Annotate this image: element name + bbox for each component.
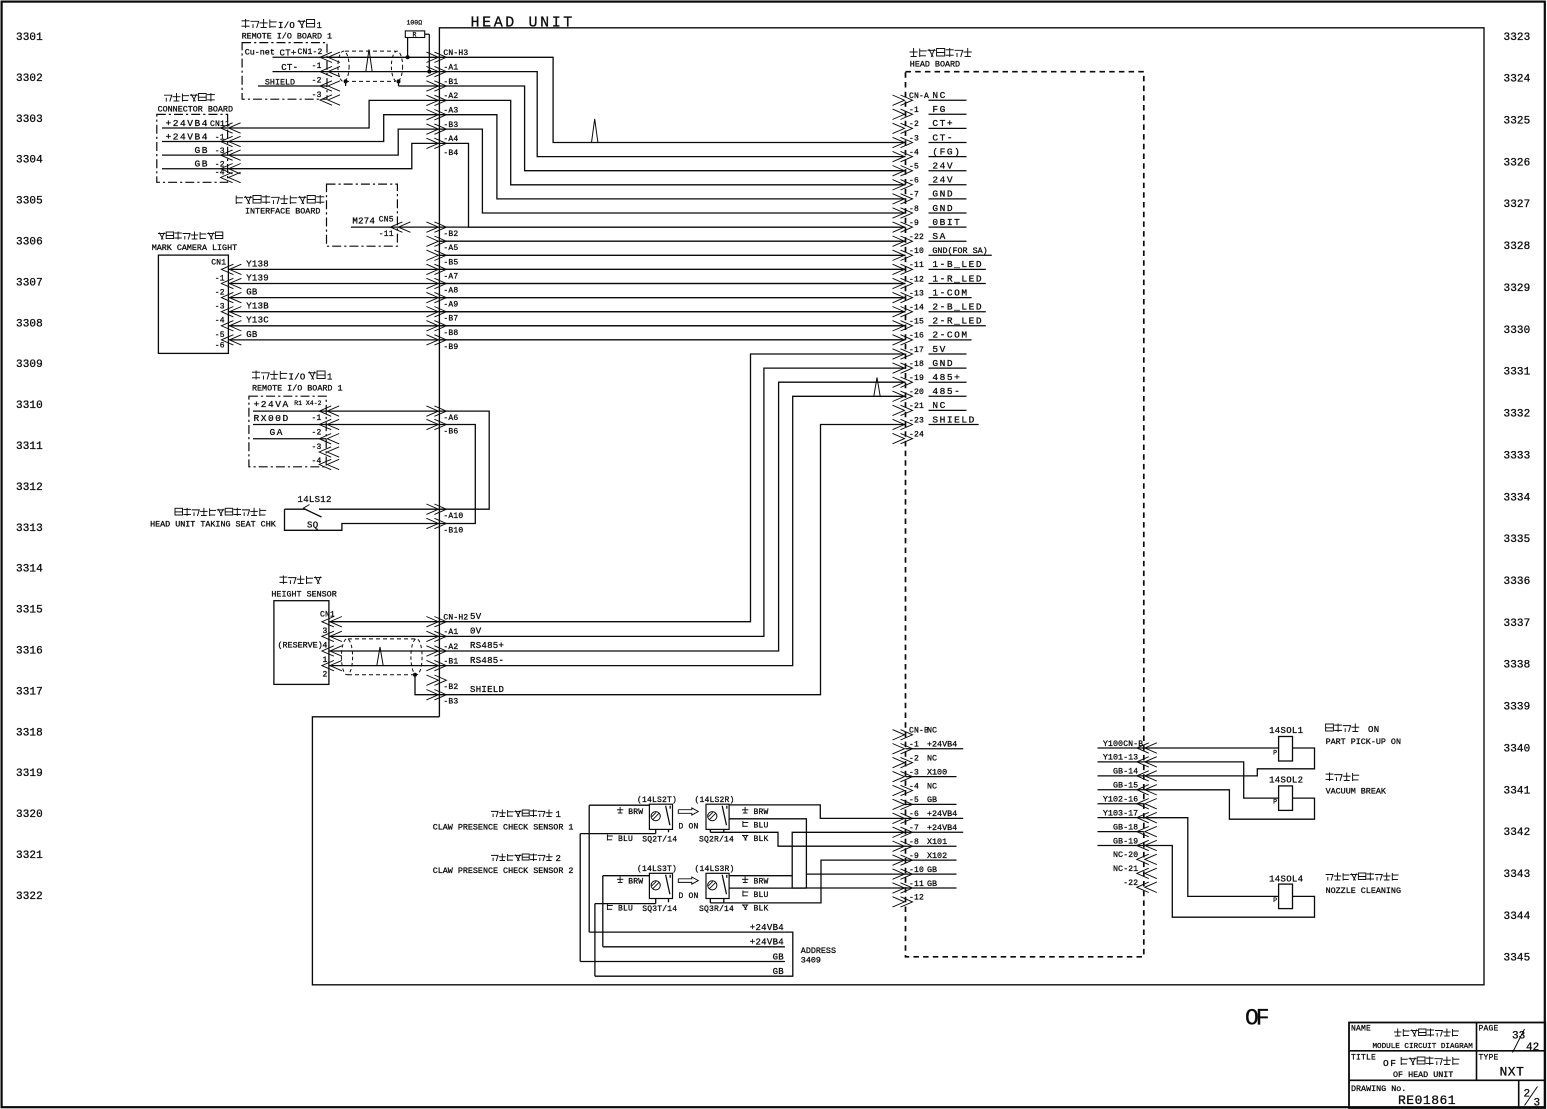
head board connector CN-B pin -5 (GB) (893, 795, 957, 809)
wire SHIELD (399, 85, 440, 87)
svg-text:SQ3R/14: SQ3R/14 (699, 905, 734, 914)
wire -A2 to head board (439, 100, 905, 184)
svg-text:3331: 3331 (1504, 367, 1531, 379)
svg-text:-3: -3 (215, 303, 225, 312)
svg-text:SQ3T/14: SQ3T/14 (642, 905, 677, 914)
claw sensor 1 title CLAW PRESENCE CHECK SENSOR 1 (433, 823, 574, 833)
wire 14SOL4 return to -19 (1144, 846, 1315, 918)
head board connector CN-B pin -13 (Y101) (1098, 753, 1157, 767)
svg-text:2-R_LED: 2-R_LED (932, 316, 983, 327)
svg-text:CN1-2: CN1-2 (297, 48, 322, 57)
wire GB camera to head board (228, 297, 905, 299)
head board connector CN-B pin -8 (X101) (893, 837, 957, 851)
svg-text:-11: -11 (909, 261, 924, 270)
boundary connector pin -B4 (unused) (443, 149, 458, 158)
svg-text:SQ2T/14: SQ2T/14 (642, 836, 677, 845)
wire row -A9 to head board (439, 297, 905, 299)
connector board pin -1 (+24VB4) (162, 131, 241, 146)
grid line number 3312 (16, 482, 43, 494)
height sensor (RESERVE) label (278, 641, 323, 651)
boundary connector pin -A5 (426, 236, 458, 253)
wire row -B9 to head board (439, 339, 905, 341)
svg-text:-3: -3 (909, 134, 919, 143)
wire GB -3 to boundary (228, 129, 440, 155)
height sensor pin 4 (322, 646, 342, 656)
vacuum break title VACUUM BREAK (1326, 786, 1387, 796)
boundary connector pin -B3 (SHIELD) (426, 685, 504, 707)
svg-text:485+: 485+ (932, 372, 961, 383)
wire -B3 to head board (439, 129, 905, 213)
svg-text:3327: 3327 (1504, 199, 1531, 211)
svg-text:OF HEAD UNIT: OF HEAD UNIT (1393, 1070, 1453, 1080)
svg-text:OF: OF (1383, 1058, 1398, 1069)
title block name (モジュール回路図) (1394, 1029, 1459, 1037)
sensor 14LS3R label (695, 865, 735, 874)
Cu-net pin -3 (312, 91, 340, 105)
sensor 14LS2R label (695, 796, 735, 805)
svg-text:BLU: BLU (618, 835, 633, 844)
boundary connector pin -A8 (426, 278, 458, 295)
connector board pin -2 (GB) (162, 159, 241, 174)
svg-text:NC: NC (1113, 850, 1123, 860)
head board connector CN-B pin -7 (+24VB4) (893, 823, 964, 837)
connector board title (コネクタ基板) (164, 93, 215, 102)
head board connector CN-B pin -18 (GB) (1098, 822, 1157, 836)
title block PAGE label (1479, 1025, 1499, 1034)
shielded cable (height sensor) (341, 639, 422, 675)
svg-text:2: 2 (556, 854, 562, 864)
svg-text:3341: 3341 (1504, 785, 1531, 797)
wire CN-H2 to head board (439, 382, 905, 651)
height sensor pin number 4 (322, 642, 327, 651)
wire row -A8 to head board (439, 283, 905, 285)
SQ3R/14 label (699, 905, 734, 914)
svg-text:-20: -20 (1123, 851, 1138, 860)
grid line number 3306 (16, 237, 43, 249)
svg-text:3334: 3334 (1504, 492, 1531, 504)
svg-text:CN1: CN1 (211, 259, 226, 268)
svg-text:3: 3 (1534, 1098, 1541, 1109)
svg-text:CT+: CT+ (932, 118, 954, 129)
svg-text:BRW: BRW (754, 878, 769, 887)
svg-text:2-B_LED: 2-B_LED (932, 302, 983, 313)
camera pin -3 (Y13B) (215, 302, 270, 317)
svg-text:GB: GB (1113, 822, 1123, 832)
wire 14SOL2 return to -15 (1144, 790, 1315, 819)
grid line number 3338 (1504, 660, 1531, 672)
boundary connector pin -B2 (None) (426, 675, 458, 692)
3R BLU color label (743, 891, 769, 901)
svg-text:(14LS3R): (14LS3R) (695, 865, 735, 874)
svg-text:Cu-net: Cu-net (245, 48, 275, 58)
svg-text:3339: 3339 (1504, 702, 1531, 714)
svg-text:3409: 3409 (801, 956, 821, 966)
type NXT (1500, 1065, 1525, 1080)
svg-text:-2: -2 (311, 429, 321, 438)
wire row -B5 to head board (439, 254, 905, 256)
head board connector CN-B pin -16 (Y102) (1098, 795, 1157, 809)
svg-text:FG: FG (932, 104, 947, 115)
svg-text:-6: -6 (215, 342, 225, 351)
grid line number 3343 (1504, 869, 1531, 881)
solenoid 14SOL4 (1273, 884, 1292, 909)
svg-text:-B5: -B5 (443, 258, 458, 267)
solenoid 14SOL4 label (1269, 875, 1303, 885)
grid line number 3318 (16, 727, 43, 739)
connector board pin -4 (215, 169, 241, 183)
svg-text:SHIELD: SHIELD (932, 414, 976, 425)
svg-text:-9: -9 (909, 219, 919, 228)
boundary pin -B10 (426, 518, 463, 535)
head board connector CN-B pin -14 (GB) (1098, 767, 1157, 781)
svg-text:GB: GB (1113, 767, 1123, 777)
svg-text:CLAW PRESENCE CHECK SENSOR 1: CLAW PRESENCE CHECK SENSOR 1 (433, 823, 574, 833)
head board connector CN-A pin -4 ((FG)) (893, 146, 967, 161)
camera pin CN1 (Y138) (221, 259, 269, 274)
mark camera light outline (158, 255, 228, 353)
svg-text:RE01861: RE01861 (1398, 1093, 1456, 1108)
svg-text:+24VB4: +24VB4 (927, 740, 957, 750)
ADDRESS 3409 label (801, 946, 836, 966)
svg-text:R1 X4-2: R1 X4-2 (294, 400, 321, 407)
head board connector CN-B pin -17 (Y103) (1098, 808, 1157, 823)
SQ3T/14 label (642, 905, 677, 914)
svg-text:3310: 3310 (16, 400, 43, 412)
wire CT+ (327, 56, 439, 58)
svg-text:14SOL2: 14SOL2 (1269, 776, 1303, 786)
title block TITLE label (1351, 1053, 1376, 1062)
connector board title CONNECTOR BOARD (158, 105, 233, 115)
svg-text:-10: -10 (909, 247, 924, 256)
svg-text:5V: 5V (932, 344, 947, 355)
svg-text:+24VB4: +24VB4 (750, 938, 784, 948)
terminator resistor R 100 ohm (405, 20, 431, 74)
shield tap right (397, 79, 401, 86)
grid line number 3320 (16, 809, 43, 821)
3R BRW color label (742, 877, 769, 887)
page number 33/42 (1512, 1029, 1539, 1054)
svg-text:HEAD UNIT: HEAD UNIT (471, 15, 575, 32)
grid line number 3324 (1504, 74, 1531, 86)
grid line number 3335 (1504, 534, 1531, 546)
svg-text:-20: -20 (909, 388, 924, 397)
wire M274 to boundary (397, 226, 439, 228)
mark camera light title (マークカメラ光源) (158, 232, 223, 240)
wire +24VB4 CN11 to boundary (228, 100, 440, 128)
svg-text:NC: NC (932, 400, 947, 411)
svg-text:3330: 3330 (1504, 325, 1531, 337)
svg-text:GB: GB (194, 145, 209, 156)
svg-text:1: 1 (322, 656, 327, 665)
wire 2T BRW drop to +24VB4 rail (588, 805, 590, 932)
beam arrow sensor 2 (678, 877, 698, 884)
grid line number 3336 (1504, 576, 1531, 588)
head board connector CN-A pin -13 (1-COM) (893, 287, 972, 302)
height sensor pin number 1 (322, 656, 327, 665)
D ON label sensor 1 (679, 823, 699, 832)
wire GB camera to head board (228, 339, 905, 341)
svg-text:3307: 3307 (16, 277, 43, 289)
2R BLK color label (742, 835, 769, 844)
svg-text:GB: GB (773, 967, 785, 977)
svg-text:BRW: BRW (628, 808, 643, 817)
svg-text:Y101: Y101 (1103, 753, 1123, 763)
photo sensor 14LS2T (649, 804, 672, 829)
svg-text:NC: NC (932, 90, 947, 101)
svg-text:3318: 3318 (16, 727, 43, 739)
svg-text:-B7: -B7 (443, 315, 458, 324)
wire row -B8 to head board (439, 325, 905, 327)
wire 3T BRW drop to +24VB4 rail (602, 876, 604, 947)
svg-text:3313: 3313 (16, 523, 43, 535)
svg-text:M274: M274 (352, 216, 375, 226)
wire CN-H3 to head board (439, 57, 905, 142)
grid line number 3321 (16, 850, 43, 862)
grid line number 3330 (1504, 325, 1531, 337)
wire height sensor (329, 621, 440, 623)
svg-text:4: 4 (322, 642, 327, 651)
grid line number 3309 (16, 359, 43, 371)
height sensor connector CN1 label (320, 611, 335, 620)
svg-text:(14LS3T): (14LS3T) (637, 865, 677, 874)
height sensor pin 3 (322, 631, 342, 641)
head board connector CN-B pin -22 (None) (1123, 879, 1157, 892)
boundary connector pin -A1 (426, 63, 458, 76)
wire row -B2 to head board (439, 226, 905, 228)
svg-text:BLU: BLU (754, 822, 769, 831)
svg-text:3325: 3325 (1504, 116, 1531, 128)
grid line number 3326 (1504, 157, 1531, 169)
svg-text:24V: 24V (932, 175, 954, 186)
shield tap left (344, 79, 348, 86)
svg-text:1: 1 (556, 810, 562, 820)
title block MODULE CIRCUIT DIAGRAM (1373, 1043, 1474, 1051)
svg-text:-22: -22 (1123, 879, 1138, 888)
svg-text:MODULE CIRCUIT DIAGRAM: MODULE CIRCUIT DIAGRAM (1373, 1043, 1474, 1051)
svg-text:-4: -4 (909, 148, 919, 157)
wire row -A5 to head board (439, 240, 905, 242)
svg-text:-A10: -A10 (443, 512, 463, 521)
svg-text:Y138: Y138 (246, 259, 269, 269)
svg-text:3305: 3305 (16, 196, 43, 208)
interface board title (インターフェース基板) (236, 195, 324, 204)
head board connector CN-A pin -23 (SHIELD) (893, 414, 979, 429)
wire row -A7 to head board (439, 268, 905, 270)
sheet code OF (1245, 1006, 1269, 1032)
svg-text:-2: -2 (909, 120, 919, 129)
svg-text:I/O: I/O (289, 373, 306, 383)
sheet 2/3 (1524, 1087, 1541, 1109)
interface board outline (327, 184, 398, 246)
svg-text:3308: 3308 (16, 318, 43, 330)
svg-text:GND: GND (932, 358, 954, 369)
svg-text:-12: -12 (909, 894, 924, 903)
svg-text:-1: -1 (312, 62, 322, 71)
svg-text:CN-B: CN-B (909, 727, 929, 736)
svg-text:Y13C: Y13C (246, 316, 269, 326)
svg-text:NC: NC (927, 726, 937, 736)
grid line number 3310 (16, 400, 43, 412)
wire pin -7 to 3R BRW (792, 832, 905, 888)
height sensor pin number 2 (322, 671, 327, 680)
svg-text:5V: 5V (470, 612, 482, 622)
twist symbol 485 pair (874, 378, 880, 397)
loop wire -A6 to -A10 (439, 411, 489, 509)
height sensor pin 1 (322, 660, 342, 670)
grid line number 3302 (16, 73, 43, 85)
svg-text:P: P (1273, 749, 1277, 756)
drawing number RE01861 (1398, 1093, 1456, 1108)
svg-text:3332: 3332 (1504, 409, 1531, 421)
svg-text:HEAD UNIT TAKING SEAT CHK: HEAD UNIT TAKING SEAT CHK (150, 520, 277, 530)
grid line number 3307 (16, 277, 43, 289)
Cu-net pin -2 SHIELD (258, 77, 340, 92)
head board connector CN-B pin -21 (NC) (1113, 864, 1157, 878)
svg-text:-5: -5 (909, 163, 919, 172)
head board connector CN-B pin -10 (GB) (893, 865, 957, 879)
head board connector CN-B pin -1 (+24VB4) (893, 740, 964, 754)
grid line number 3329 (1504, 283, 1531, 295)
head board connector CN-B pin -20 (NC) (1113, 850, 1157, 864)
svg-text:CONNECTOR BOARD: CONNECTOR BOARD (158, 105, 233, 115)
svg-text:-8: -8 (909, 205, 919, 214)
svg-text:GB: GB (246, 330, 258, 340)
claw sensor 1 title (クロウ有無センサ1) (491, 810, 561, 821)
svg-text:Y102: Y102 (1103, 795, 1123, 805)
solenoid 14SOL2 (1273, 786, 1292, 811)
wire -A1 to head board (439, 72, 905, 157)
SQ2R/14 label (699, 836, 734, 845)
svg-text:-A8: -A8 (443, 287, 458, 296)
wire 3T BLU drop to GB rail (594, 904, 596, 977)
svg-text:NC: NC (927, 781, 937, 791)
svg-text:GND: GND (932, 189, 954, 200)
svg-text:2-COM: 2-COM (932, 330, 968, 341)
+24VB4 rail 1 (589, 931, 785, 933)
svg-text:3328: 3328 (1504, 241, 1531, 253)
boundary connector pin -A7 (426, 264, 458, 281)
twist symbol RS485 pair (377, 647, 383, 666)
grid line number 3314 (16, 564, 43, 576)
head board connector CN-B pin -11 (GB) (893, 879, 957, 893)
boundary connector pin -A3 (426, 107, 458, 120)
wire Y101 to 14SOL2 (1144, 762, 1279, 798)
svg-text:CLAW PRESENCE CHECK SENSOR 2: CLAW PRESENCE CHECK SENSOR 2 (433, 866, 574, 876)
head board connector CN-A pin -15 (2-R_LED) (893, 316, 986, 331)
svg-text:CN-A: CN-A (909, 92, 929, 101)
head board connector CN-A pin -17 (5V) (893, 344, 967, 359)
svg-text:-14: -14 (909, 304, 924, 313)
head board connector CN-B pin -15 (GB) (1098, 781, 1157, 795)
boundary connector pin -B3 (426, 121, 458, 134)
svg-text:-3: -3 (311, 443, 321, 452)
grid line number 3341 (1504, 785, 1531, 797)
svg-text:-5: -5 (215, 331, 225, 340)
svg-text:X102: X102 (927, 851, 947, 861)
svg-text:-13: -13 (909, 289, 924, 298)
svg-text:VACUUM BREAK: VACUUM BREAK (1326, 786, 1387, 796)
shield tap (cable to -B3) (413, 673, 439, 695)
svg-text:3309: 3309 (16, 359, 43, 371)
grid line number 3317 (16, 686, 43, 698)
grid line number 3304 (16, 155, 43, 167)
svg-text:GB: GB (246, 288, 258, 298)
wire 2T BRW (589, 804, 649, 806)
svg-text:3317: 3317 (16, 686, 43, 698)
svg-text:GB: GB (927, 879, 937, 889)
3T BLU color label (607, 904, 633, 914)
svg-text:BRW: BRW (628, 878, 643, 887)
title block OF HEAD UNIT (1393, 1070, 1453, 1080)
title block NAME label (1351, 1025, 1371, 1034)
head board connector CN-A pin -5 (24V) (893, 161, 967, 176)
svg-text:-B3: -B3 (443, 698, 458, 707)
svg-text:ON: ON (1368, 725, 1379, 735)
wire 3R BRW to chain (729, 875, 792, 877)
svg-text:-12: -12 (909, 275, 924, 284)
svg-text:+24VB4: +24VB4 (750, 923, 784, 933)
svg-text:3320: 3320 (16, 809, 43, 821)
svg-text:GB: GB (927, 865, 937, 875)
svg-text:3314: 3314 (16, 564, 43, 576)
svg-text:-24: -24 (909, 430, 924, 439)
svg-text:1: 1 (327, 373, 333, 383)
head board connector CN-B pin -9 (X102) (893, 851, 957, 865)
svg-text:GND: GND (932, 203, 954, 214)
svg-text:3316: 3316 (16, 646, 43, 658)
wire 2T BLU (580, 829, 668, 833)
head unit boundary outline (312, 28, 1484, 985)
Cu-net label (245, 48, 275, 58)
head board connector CN-A pin -22 (SA) (893, 231, 967, 246)
height sensor pin number 3 (322, 627, 327, 636)
shielded twisted-pair cable (Cu-net) (338, 51, 403, 81)
head board connector CN-B pin CN-B (NC) (893, 726, 938, 740)
wire 3R BLU to chain (729, 887, 806, 889)
head board title (ヘッド機能基板) (910, 48, 972, 57)
2T BRW color label (617, 807, 643, 817)
wire BLU chain tee to pin -10 (806, 873, 905, 875)
boundary connector pin CN-H2 (5V) (426, 612, 481, 627)
head board connector CN-A pin -6 (24V) (893, 175, 967, 190)
svg-text:CT-: CT- (932, 132, 954, 143)
remote board pin -3 (311, 443, 339, 457)
wire CN-H2 to head board (439, 368, 905, 636)
wire Y139 camera to head board (228, 283, 905, 285)
svg-text:HEIGHT SENSOR: HEIGHT SENSOR (271, 590, 336, 600)
sensor 14LS3T label (637, 865, 677, 874)
svg-text:SQ2R/14: SQ2R/14 (699, 836, 734, 845)
svg-text:P: P (1273, 799, 1277, 806)
wire CN-H2 to head board (439, 425, 905, 695)
connector board pin -3 (GB) (162, 145, 241, 160)
head board connector CN-A pin -8 (GND) (893, 203, 967, 218)
GB rail 4 (595, 975, 785, 977)
wire height sensor (329, 635, 440, 637)
grid line number 3315 (16, 605, 43, 617)
boundary connector pin -B1 (426, 78, 458, 91)
svg-text:14SOL1: 14SOL1 (1269, 726, 1303, 736)
svg-text:+24VA: +24VA (254, 399, 290, 410)
wire 3T BLU (595, 899, 669, 904)
svg-text:GB: GB (773, 952, 785, 962)
wire 2R BLK to pin -8 (710, 829, 905, 846)
claw sensor 2 title (クロウ有無センサ2) (491, 854, 561, 865)
head board connector CN-A pin -14 (2-B_LED) (893, 302, 986, 317)
svg-text:PAGE: PAGE (1479, 1025, 1499, 1034)
svg-text:RS485-: RS485- (470, 656, 504, 666)
svg-text:X101: X101 (927, 837, 947, 847)
